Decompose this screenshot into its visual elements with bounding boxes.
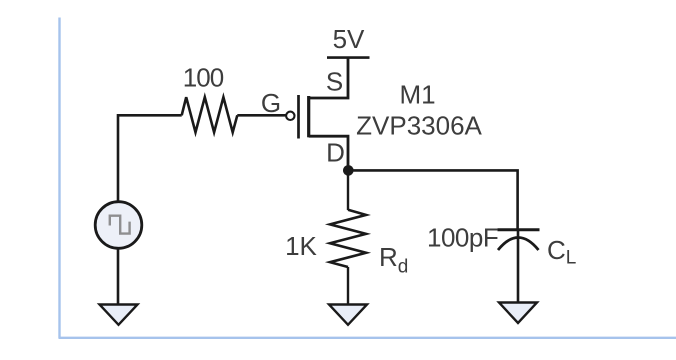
wire drain node down to Rd [347, 170, 349, 210]
wire capacitor to ground [517, 231, 520, 303]
transistor M1 source lead [309, 58, 348, 98]
capacitor CL top plate [498, 228, 540, 231]
transistor M1 channel bar [307, 96, 310, 137]
wire drain node to capacitor branch [348, 170, 517, 229]
capacitor CL bottom curved plate [498, 238, 539, 251]
pulse waveform glyph [110, 216, 130, 234]
source V1 pulse generator [95, 202, 142, 249]
resistor R1 100 [182, 97, 238, 132]
wire input net: source top to gate resistor [118, 115, 182, 202]
svg-text:100pF: 100pF [427, 223, 498, 253]
svg-text:100: 100 [183, 63, 224, 93]
ground under source [100, 305, 138, 325]
wire resistor to gate bubble [237, 114, 286, 117]
transistor M1 drain lead [309, 136, 348, 170]
wire source to ground [117, 248, 120, 304]
svg-text:1K: 1K [285, 231, 317, 261]
node drain junction dot [343, 165, 354, 176]
transistor M1 gate bubble [286, 112, 294, 120]
svg-text:S: S [326, 66, 343, 96]
power 5V bar [327, 56, 370, 59]
resistor Rd 1K vertical [330, 210, 366, 267]
ground under CL [499, 303, 537, 324]
svg-text:Rd: Rd [379, 242, 408, 278]
frame bottom border [59, 337, 676, 339]
svg-text:G: G [261, 88, 281, 118]
frame left border [58, 18, 60, 339]
transistor M1 gate bar [297, 95, 300, 139]
wire Rd to ground [347, 267, 349, 305]
svg-text:M1: M1 [399, 80, 435, 110]
svg-text:CL: CL [547, 235, 576, 269]
svg-text:5V: 5V [333, 24, 365, 54]
ground under Rd [329, 305, 367, 325]
svg-text:D: D [326, 138, 345, 168]
svg-text:ZVP3306A: ZVP3306A [356, 111, 482, 141]
